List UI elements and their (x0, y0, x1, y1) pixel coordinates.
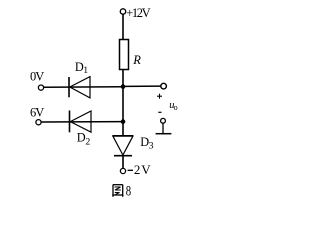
svg-text:o: o (174, 103, 178, 112)
wire (41, 121, 123, 123)
node junction upper (121, 84, 126, 89)
diode D2 (70, 111, 92, 133)
svg-text:8: 8 (126, 183, 131, 199)
label minus (158, 111, 161, 113)
svg-text:2: 2 (85, 137, 90, 148)
wire (123, 85, 161, 87)
wire (122, 70, 124, 137)
terminal uo minus (161, 118, 166, 123)
terminal uo plus (161, 83, 167, 89)
terminal 0V (38, 85, 43, 90)
caption figure 8 box glyph (112, 185, 123, 197)
label plus (157, 94, 162, 99)
wire (122, 156, 124, 169)
wire (44, 86, 123, 89)
wire (162, 123, 164, 133)
node junction lower (121, 119, 126, 124)
terminal 6V (36, 120, 41, 125)
ground (156, 133, 172, 135)
svg-text:R: R (132, 53, 141, 67)
resistor R (120, 40, 129, 70)
diode D1 (69, 77, 90, 98)
terminal +12V (120, 9, 125, 14)
terminal -2V (120, 168, 125, 173)
wire (122, 14, 124, 40)
svg-text:+12V: +12V (126, 6, 150, 20)
svg-text:2V: 2V (134, 162, 151, 177)
svg-text:3: 3 (149, 141, 154, 152)
svg-text:6V: 6V (30, 105, 44, 119)
label -2V (128, 169, 133, 171)
diode D3 (113, 136, 134, 156)
svg-text:0V: 0V (30, 69, 44, 83)
svg-text:1: 1 (83, 65, 88, 76)
